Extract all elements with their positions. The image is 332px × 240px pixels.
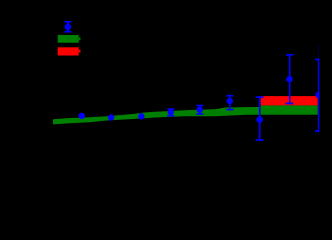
data point 7 bbox=[256, 96, 264, 141]
data point 5 bbox=[196, 105, 203, 115]
data point 3 bbox=[138, 113, 144, 119]
legend green band swatch bbox=[58, 35, 81, 43]
data point 6 bbox=[226, 95, 233, 111]
data point 9 (clipped at plot edge) bbox=[315, 44, 322, 132]
data point 1 bbox=[79, 113, 85, 119]
legend data-point marker bbox=[64, 21, 71, 33]
last-bin green box bbox=[261, 105, 318, 114]
theory green band bbox=[53, 107, 261, 124]
data point 8 bbox=[286, 54, 294, 104]
data point 2 bbox=[108, 114, 114, 120]
data point 4 bbox=[167, 108, 174, 116]
legend red band swatch bbox=[58, 47, 81, 55]
last-bin red box bbox=[261, 96, 318, 105]
